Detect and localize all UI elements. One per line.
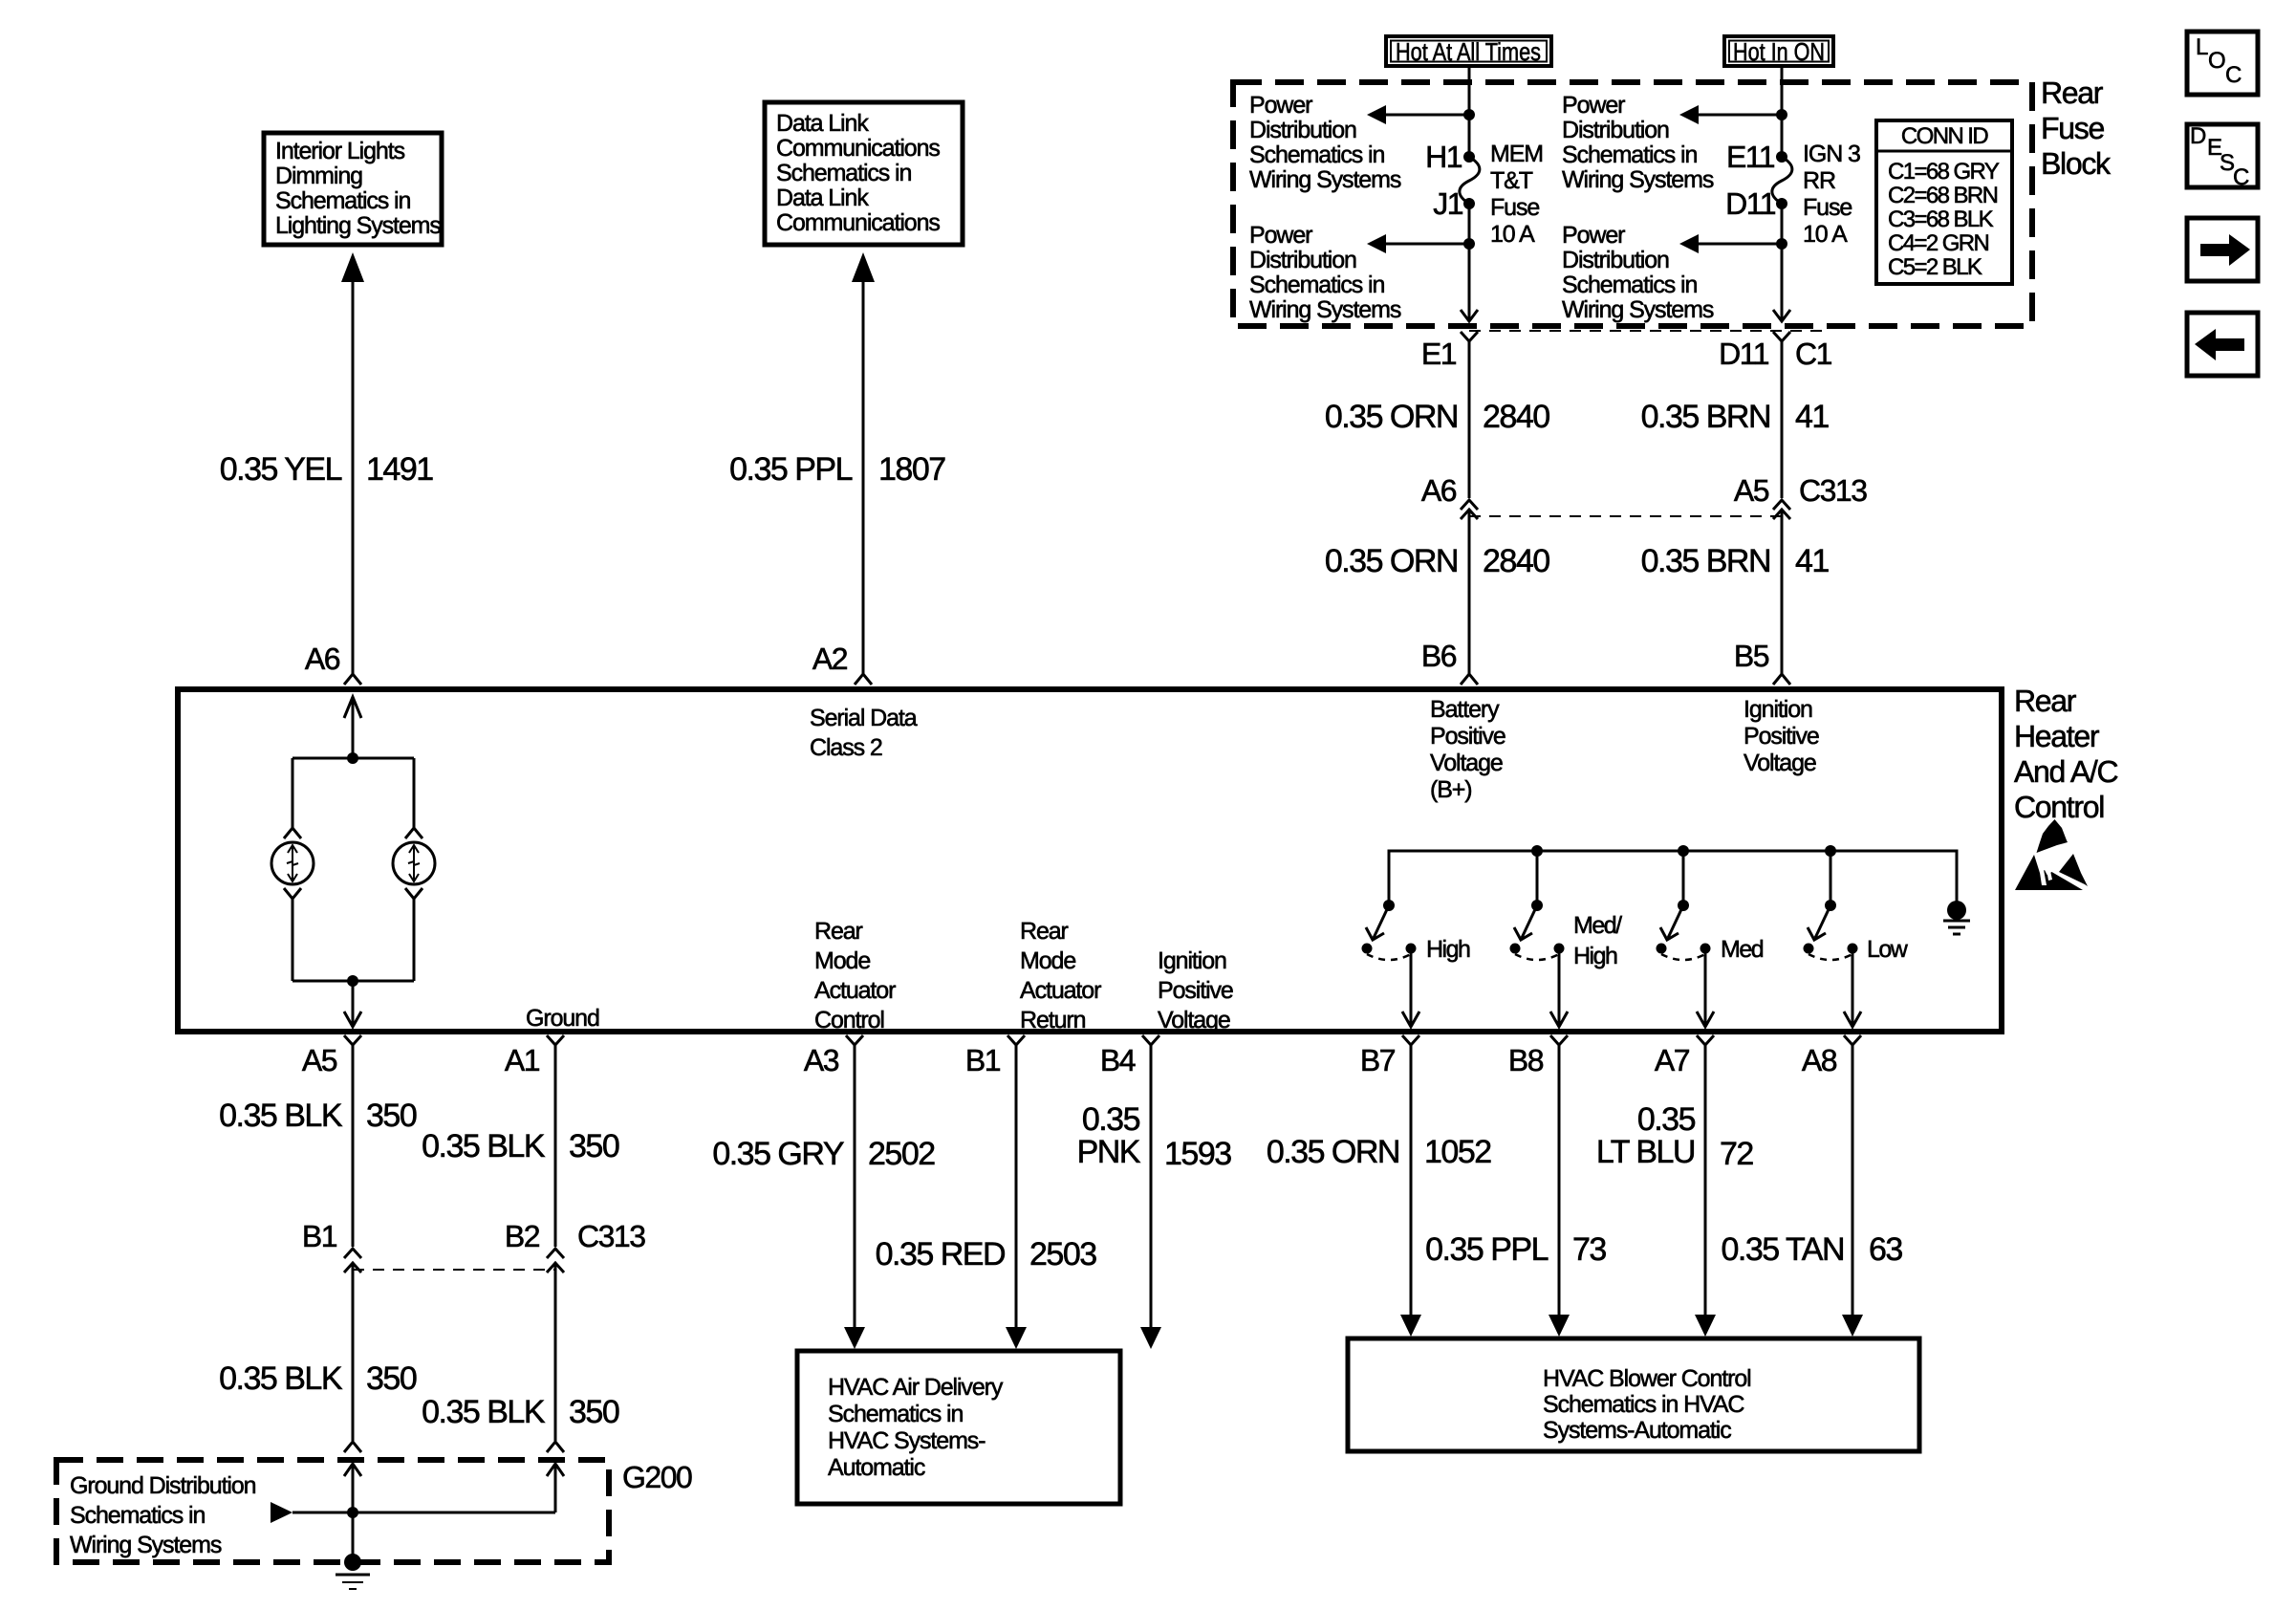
pin connector Y at A3 — [846, 1035, 863, 1331]
svg-text:E11: E11 — [1726, 140, 1775, 174]
label Rear Mode Actuator Return — [1020, 918, 1101, 1033]
svg-text:Data Link: Data Link — [776, 110, 869, 137]
svg-text:0.35 BLK: 0.35 BLK — [219, 1098, 343, 1134]
lamp L1 (illumination lamp) — [271, 842, 314, 884]
wire label 0.35 BLK 350 (A5 upper) — [219, 1098, 417, 1134]
pin connector Y at B4 — [1142, 1035, 1159, 1331]
pin connector Y at A5 — [344, 1035, 361, 1247]
right lamp branch wire upper — [413, 758, 416, 828]
svg-text:Wiring Systems: Wiring Systems — [70, 1532, 222, 1558]
svg-text:Wiring Systems: Wiring Systems — [1249, 166, 1401, 193]
junction dot top — [347, 752, 358, 764]
fuse IGN 3 RR 10A (element between E11 and D11) — [1772, 157, 1792, 204]
svg-text:Actuator: Actuator — [814, 977, 896, 1004]
svg-text:Med: Med — [1721, 936, 1764, 963]
wire label 0.35 BRN 41 (upper) — [1641, 399, 1830, 435]
junction J1 terminal dot — [1463, 198, 1475, 209]
svg-text:Wiring Systems: Wiring Systems — [1249, 296, 1401, 323]
svg-text:10 A: 10 A — [1803, 221, 1848, 248]
svg-text:Med/: Med/ — [1573, 912, 1622, 939]
lamp parallel circuit bottom wire — [292, 980, 414, 983]
in-line connector C313 at B1 (chevrons) — [344, 1249, 361, 1441]
left lamp connector chevron top — [284, 828, 301, 838]
svg-text:Distribution: Distribution — [1249, 247, 1356, 273]
lamp L2 (illumination lamp) — [393, 842, 435, 884]
bus junction dot 3 — [1678, 845, 1689, 857]
svg-text:A8: A8 — [1802, 1043, 1837, 1077]
fuse MEM T&T 10A (element between H1 and J1) — [1460, 157, 1480, 204]
svg-text:RR: RR — [1803, 167, 1835, 194]
label Power Distribution Schematics in Wiring Systems (lower right) — [1562, 222, 1714, 323]
pin connector Y at A7 — [1697, 1035, 1714, 1318]
svg-text:Voltage: Voltage — [1430, 750, 1503, 776]
wire label 0.35 ORN 2840 (upper) — [1325, 399, 1549, 435]
wire 0.35 YEL 1491 from Rear Heater A6 to Interior Lights box (arrow up) — [341, 252, 364, 685]
svg-text:0.35 PPL: 0.35 PPL — [1425, 1231, 1548, 1268]
blower switch bus wire — [1389, 851, 1957, 905]
switch S1 High — [1362, 900, 1417, 960]
label Rear Heater And A/C Control — [2014, 684, 2117, 824]
svg-text:A6: A6 — [1421, 473, 1457, 508]
svg-text:C3=68 BLK: C3=68 BLK — [1888, 207, 1994, 232]
svg-text:41: 41 — [1795, 399, 1829, 435]
svg-text:C1: C1 — [1795, 337, 1832, 371]
svg-text:Return: Return — [1020, 1007, 1086, 1033]
svg-text:2840: 2840 — [1483, 399, 1549, 435]
switch S3 Med — [1657, 900, 1711, 960]
svg-text:High: High — [1426, 936, 1470, 963]
svg-text:B1: B1 — [965, 1043, 1001, 1077]
bus junction dot 2 — [1531, 845, 1543, 857]
svg-text:Systems-Automatic: Systems-Automatic — [1543, 1417, 1731, 1444]
svg-text:Schematics in: Schematics in — [1249, 272, 1385, 298]
wire branch arrow to Power Distribution (lower right) — [1679, 234, 1787, 253]
svg-text:Schematics in: Schematics in — [1249, 141, 1385, 168]
label Rear Fuse Block — [2041, 76, 2112, 181]
svg-text:A7: A7 — [1655, 1043, 1690, 1077]
svg-text:L: L — [2196, 34, 2208, 60]
svg-text:A6: A6 — [305, 642, 340, 676]
label Ignition Positive Voltage (left) — [1158, 947, 1233, 1033]
svg-text:Serial Data: Serial Data — [810, 705, 918, 731]
box: HVAC Blower Control Schematics in HVAC Systems-Automatic — [1348, 1338, 1919, 1451]
svg-text:Positive: Positive — [1430, 723, 1505, 750]
svg-text:(B+): (B+) — [1430, 776, 1472, 803]
svg-text:0.35: 0.35 — [1082, 1101, 1140, 1138]
svg-text:Power: Power — [1249, 222, 1312, 249]
svg-text:C2=68 BRN: C2=68 BRN — [1888, 183, 1998, 208]
connector E1 (female Y below fuse block) — [1461, 332, 1478, 498]
right lamp connector Y bottom — [405, 888, 422, 899]
svg-text:350: 350 — [366, 1360, 417, 1397]
svg-text:1052: 1052 — [1424, 1134, 1491, 1170]
svg-text:Block: Block — [2041, 146, 2112, 181]
junction dot bottom — [347, 975, 358, 987]
wire from S3 to A7 with arrow down — [1697, 948, 1714, 1027]
wire to A5 pin with arrow down — [344, 981, 361, 1027]
svg-text:Mode: Mode — [814, 947, 870, 974]
svg-text:Lighting Systems: Lighting Systems — [275, 212, 441, 239]
svg-text:Automatic: Automatic — [828, 1454, 925, 1481]
svg-text:C4=2 GRN: C4=2 GRN — [1888, 230, 1989, 256]
internal ground (bus right end) — [1943, 901, 1970, 934]
svg-text:2840: 2840 — [1483, 543, 1549, 579]
svg-text:C313: C313 — [1799, 473, 1867, 508]
svg-text:Ignition: Ignition — [1744, 696, 1812, 723]
svg-text:Hot At All Times: Hot At All Times — [1396, 37, 1541, 66]
wire from S4 to A8 with arrow down — [1844, 948, 1861, 1027]
svg-text:1807: 1807 — [878, 451, 945, 488]
wire label 0.35 GRY 2502 — [712, 1136, 935, 1172]
svg-text:Dimming: Dimming — [275, 163, 362, 189]
in-line connector C313 at A5/B5 (chevrons) — [1773, 500, 1790, 674]
svg-text:Communications: Communications — [776, 135, 940, 162]
svg-text:T&T: T&T — [1490, 167, 1533, 194]
svg-text:2502: 2502 — [868, 1136, 935, 1172]
svg-text:Wiring Systems: Wiring Systems — [1562, 296, 1714, 323]
svg-text:Fuse: Fuse — [1803, 194, 1852, 221]
svg-text:350: 350 — [569, 1394, 619, 1430]
junction dot on ground wire — [347, 1507, 358, 1518]
svg-text:High: High — [1573, 943, 1617, 969]
junction H1 terminal dot — [1463, 151, 1475, 163]
svg-text:Rear: Rear — [2041, 76, 2104, 110]
pin connector Y at A8 — [1844, 1035, 1861, 1318]
svg-text:Mode: Mode — [1020, 947, 1075, 974]
left lamp branch wire lower — [292, 899, 294, 981]
svg-text:Schematics in: Schematics in — [70, 1502, 206, 1529]
svg-text:72: 72 — [1720, 1136, 1753, 1172]
box: Interior Lights Dimming Schematics in Lighting Systems — [264, 133, 442, 245]
svg-text:C: C — [2225, 62, 2242, 88]
svg-text:C5=2 BLK: C5=2 BLK — [1888, 254, 1982, 280]
svg-text:PNK: PNK — [1077, 1134, 1141, 1170]
icon box arrow left — [2187, 313, 2258, 376]
table CONN ID — [1876, 120, 2012, 284]
svg-text:Interior Lights: Interior Lights — [275, 138, 405, 164]
svg-text:Positive: Positive — [1158, 977, 1233, 1004]
in-line connector C313 at A6/B6 (chevrons) — [1461, 500, 1478, 674]
svg-text:Control: Control — [814, 1007, 884, 1033]
svg-text:Schematics in: Schematics in — [275, 187, 411, 214]
connector D11/C1 (female Y below fuse block) — [1773, 332, 1790, 498]
label Serial Data Class 2 — [810, 705, 918, 761]
svg-text:B8: B8 — [1508, 1043, 1544, 1077]
connector chevron at B5 box entry — [1773, 674, 1790, 685]
svg-text:0.35 BRN: 0.35 BRN — [1641, 399, 1770, 435]
svg-text:HVAC Air Delivery: HVAC Air Delivery — [828, 1374, 1004, 1401]
wire branch arrow to Power Distribution (upper right) — [1679, 105, 1787, 124]
svg-text:0.35 BLK: 0.35 BLK — [219, 1360, 343, 1397]
svg-text:And A/C: And A/C — [2014, 754, 2117, 789]
svg-text:A3: A3 — [804, 1043, 839, 1077]
svg-text:B5: B5 — [1734, 639, 1769, 673]
svg-text:350: 350 — [366, 1098, 417, 1134]
svg-text:0.35 ORN: 0.35 ORN — [1325, 543, 1458, 579]
dashed connector line C313 (lower) — [353, 1269, 555, 1271]
ground distribution branch triangle — [271, 1502, 292, 1523]
arrow into HVAC Blower Control from A8 — [1842, 1315, 1863, 1337]
svg-text:Schematics in: Schematics in — [776, 160, 912, 186]
svg-text:0.35 PPL: 0.35 PPL — [729, 451, 852, 488]
dashed connector line C313 — [1469, 515, 1782, 517]
svg-text:H1: H1 — [1425, 140, 1462, 174]
svg-text:0.35 BLK: 0.35 BLK — [422, 1128, 546, 1164]
wire label 0.35 BLK 350 (A1 upper) — [422, 1128, 619, 1164]
dashed box: Ground Distribution G200 — [56, 1460, 609, 1562]
arrow into HVAC Air Delivery from B1 — [1006, 1327, 1027, 1349]
ground G200 symbol — [336, 1554, 370, 1589]
svg-text:IGN 3: IGN 3 — [1803, 141, 1860, 167]
switch S4 Low — [1804, 900, 1858, 960]
svg-text:Power: Power — [1562, 92, 1625, 119]
label Rear Mode Actuator Control — [814, 918, 896, 1033]
wire label 0.35 BRN 41 (lower) — [1641, 543, 1830, 579]
svg-text:A2: A2 — [812, 642, 848, 676]
arrow into HVAC Air Delivery from A3 — [844, 1327, 865, 1349]
wire label 0.35 PPL 73 — [1425, 1231, 1606, 1268]
svg-text:0.35 TAN: 0.35 TAN — [1722, 1231, 1844, 1268]
label Power Distribution Schematics in Wiring Systems (upper right) — [1562, 92, 1714, 193]
wire label 0.35 BLK 350 (A1 lower) — [422, 1394, 619, 1430]
svg-text:Positive: Positive — [1744, 723, 1819, 750]
svg-text:Hot In ON: Hot In ON — [1733, 37, 1825, 66]
ESD sensitivity symbol — [2015, 819, 2088, 890]
svg-text:Rear: Rear — [2014, 684, 2077, 718]
switch S2 Med/High — [1510, 900, 1565, 960]
svg-text:MEM: MEM — [1490, 141, 1543, 167]
wire 0.35 PPL 1807 from Rear Heater A2 to Data Link box (arrow up) — [852, 252, 875, 685]
box: Data Link Communications Schematics in Data Link Communications — [765, 102, 963, 245]
svg-text:Low: Low — [1867, 936, 1909, 963]
svg-text:Data Link: Data Link — [776, 185, 869, 211]
svg-text:HVAC Blower Control: HVAC Blower Control — [1543, 1365, 1751, 1392]
svg-text:B4: B4 — [1100, 1043, 1136, 1077]
pin connector Y at B8 — [1550, 1035, 1568, 1318]
wire label 0.35 RED 2503 — [876, 1236, 1097, 1273]
wire from S2 to B8 with arrow down — [1550, 948, 1568, 1027]
svg-text:Rear: Rear — [1020, 918, 1069, 945]
svg-text:63: 63 — [1869, 1231, 1902, 1268]
left lamp connector Y bottom — [284, 888, 301, 899]
svg-text:0.35: 0.35 — [1637, 1101, 1696, 1138]
wire label 0.35 LT BLU 72 — [1596, 1101, 1754, 1172]
svg-text:41: 41 — [1795, 543, 1829, 579]
svg-text:C: C — [2233, 164, 2249, 190]
wire from S1 to B7 with arrow down — [1402, 948, 1419, 1027]
svg-text:E1: E1 — [1421, 337, 1457, 371]
svg-text:Ignition: Ignition — [1158, 947, 1226, 974]
svg-text:Voltage: Voltage — [1158, 1007, 1230, 1033]
right lamp branch wire lower — [413, 899, 416, 981]
wire into G200 right (arrow up) — [547, 1464, 564, 1512]
label IGN 3 RR Fuse 10 A — [1803, 141, 1860, 248]
box: Rear Heater And A/C Control module — [178, 689, 2002, 1032]
label Ground Distribution Schematics in Wiring Systems — [70, 1472, 256, 1558]
svg-text:0.35 GRY: 0.35 GRY — [712, 1136, 844, 1172]
svg-text:Rear: Rear — [814, 918, 863, 945]
wire branch arrow to Power Distribution (upper left) — [1367, 105, 1475, 124]
svg-text:Wiring Systems: Wiring Systems — [1562, 166, 1714, 193]
wire label 0.35 PPL 1807 — [729, 451, 945, 488]
pin connector Y at B1 — [1007, 1035, 1025, 1331]
svg-text:B7: B7 — [1360, 1043, 1396, 1077]
arrow into HVAC Air Delivery from B4 — [1140, 1327, 1161, 1349]
svg-text:LT BLU: LT BLU — [1596, 1134, 1695, 1170]
ground branch wire — [292, 1512, 555, 1514]
svg-text:2503: 2503 — [1029, 1236, 1096, 1273]
svg-text:Actuator: Actuator — [1020, 977, 1101, 1004]
svg-text:C1=68 GRY: C1=68 GRY — [1888, 159, 2000, 185]
svg-text:HVAC Systems-: HVAC Systems- — [828, 1427, 986, 1454]
svg-text:Voltage: Voltage — [1744, 750, 1816, 776]
wire from Hot In ON through IGN 3 RR fuse — [1773, 66, 1790, 321]
wire label 0.35 ORN 2840 (lower) — [1325, 543, 1549, 579]
svg-text:Fuse: Fuse — [1490, 194, 1539, 221]
label MEM T&T Fuse 10 A — [1490, 141, 1543, 248]
label Power Distribution Schematics in Wiring Systems (lower left) — [1249, 222, 1401, 323]
label Power Distribution Schematics in Wiring Systems (upper left) — [1249, 92, 1401, 193]
svg-text:C313: C313 — [577, 1219, 645, 1253]
switch feed wire 4 — [1830, 851, 1832, 905]
wire label 0.35 TAN 63 — [1722, 1231, 1903, 1268]
junction D11 terminal dot — [1776, 198, 1787, 209]
connector line C1 (thin dashed) below fuse block — [1469, 330, 1824, 332]
lamp parallel circuit top wire — [292, 757, 414, 760]
icon box DESC — [2187, 123, 2258, 190]
svg-text:Battery: Battery — [1430, 696, 1500, 723]
svg-text:1491: 1491 — [366, 451, 433, 488]
svg-text:D11: D11 — [1725, 186, 1776, 221]
arrow into HVAC Blower Control from B7 — [1400, 1315, 1421, 1337]
icon box arrow right — [2187, 218, 2258, 281]
wire A6 entry arrow (inside box) — [344, 697, 361, 758]
svg-text:A5: A5 — [1734, 473, 1769, 508]
wire label 0.35 BLK 350 (A5 lower) — [219, 1360, 417, 1397]
arrow into HVAC Blower Control from B8 — [1549, 1315, 1570, 1337]
svg-text:D: D — [2190, 123, 2206, 149]
box: HVAC Air Delivery Schematics in HVAC Systems-Automatic — [797, 1351, 1120, 1504]
svg-text:73: 73 — [1572, 1231, 1606, 1268]
svg-text:CONN ID: CONN ID — [1901, 123, 1988, 149]
svg-text:0.35 YEL: 0.35 YEL — [220, 451, 342, 488]
svg-text:0.35 ORN: 0.35 ORN — [1325, 399, 1458, 435]
connector chevron at G200 right wire — [547, 1442, 564, 1452]
label Med/High — [1573, 912, 1622, 969]
svg-text:D11: D11 — [1719, 337, 1769, 371]
svg-text:10 A: 10 A — [1490, 221, 1535, 248]
svg-text:Power: Power — [1562, 222, 1625, 249]
dashed box: Rear Fuse Block — [1233, 82, 2032, 326]
svg-text:B6: B6 — [1421, 639, 1457, 673]
label Battery Positive Voltage (B+) — [1430, 696, 1505, 803]
connector chevron at B6 box entry — [1461, 674, 1478, 685]
box: Hot At All Times — [1386, 36, 1551, 66]
switch feed wire 3 — [1682, 851, 1685, 905]
right lamp connector chevron top — [405, 828, 422, 838]
svg-text:A5: A5 — [302, 1043, 337, 1077]
svg-text:B2: B2 — [505, 1219, 540, 1253]
svg-text:Distribution: Distribution — [1562, 117, 1669, 143]
svg-text:0.35 BLK: 0.35 BLK — [422, 1394, 546, 1430]
svg-text:Schematics in: Schematics in — [1562, 272, 1698, 298]
svg-text:O: O — [2208, 48, 2226, 74]
svg-text:A1: A1 — [505, 1043, 540, 1077]
connector chevron at G200 left wire — [344, 1442, 361, 1452]
arrow into HVAC Blower Control from A7 — [1695, 1315, 1716, 1337]
svg-text:Schematics in HVAC: Schematics in HVAC — [1543, 1391, 1744, 1418]
svg-text:Power: Power — [1249, 92, 1312, 119]
pin connector Y at B7 — [1402, 1035, 1419, 1318]
svg-text:Communications: Communications — [776, 209, 940, 236]
junction E11 terminal dot — [1776, 151, 1787, 163]
svg-text:Ground: Ground — [526, 1005, 599, 1032]
switch feed wire 2 — [1536, 851, 1539, 905]
svg-text:G200: G200 — [622, 1460, 692, 1494]
svg-text:1593: 1593 — [1164, 1136, 1231, 1172]
box: Hot In ON — [1724, 36, 1833, 66]
icon box LOC — [2187, 32, 2258, 95]
svg-text:350: 350 — [569, 1128, 619, 1164]
svg-text:Schematics in: Schematics in — [1562, 141, 1698, 168]
svg-text:J1: J1 — [1433, 186, 1463, 221]
wire label 0.35 PNK 1593 — [1077, 1101, 1232, 1172]
svg-text:Heater: Heater — [2014, 719, 2100, 753]
svg-text:B1: B1 — [302, 1219, 337, 1253]
wire from Hot At All Times through MEM T&T fuse — [1461, 66, 1478, 321]
wire label 0.35 ORN 1052 — [1267, 1134, 1491, 1170]
svg-text:Fuse: Fuse — [2041, 111, 2104, 145]
svg-text:Distribution: Distribution — [1249, 117, 1356, 143]
svg-text:Control: Control — [2014, 790, 2104, 824]
wire label 0.35 YEL 1491 — [220, 451, 434, 488]
wire into G200 left (arrow up) — [344, 1464, 361, 1555]
svg-text:Ground Distribution: Ground Distribution — [70, 1472, 256, 1499]
svg-text:Schematics in: Schematics in — [828, 1401, 964, 1427]
bus junction dot 4 — [1825, 845, 1836, 857]
svg-text:Class 2: Class 2 — [810, 734, 882, 761]
label Ignition Positive Voltage (right) — [1744, 696, 1819, 776]
in-line connector C313 at B2 (chevrons) — [547, 1249, 564, 1441]
svg-text:0.35 RED: 0.35 RED — [876, 1236, 1005, 1273]
svg-text:Distribution: Distribution — [1562, 247, 1669, 273]
svg-text:0.35 BRN: 0.35 BRN — [1641, 543, 1770, 579]
pin connector Y at A1 — [547, 1035, 564, 1247]
wire branch arrow to Power Distribution (lower left) — [1367, 234, 1475, 253]
svg-text:0.35 ORN: 0.35 ORN — [1267, 1134, 1399, 1170]
left lamp branch wire upper — [292, 758, 294, 828]
